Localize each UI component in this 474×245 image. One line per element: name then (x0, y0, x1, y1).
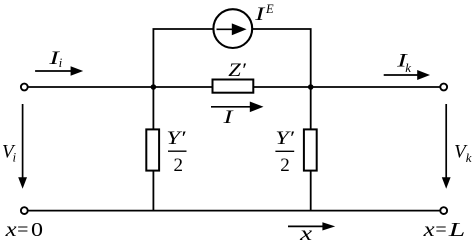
current arrow I_k (out of node k) (384, 70, 430, 80)
svg-text:i: i (13, 150, 17, 165)
label I_k (396, 50, 412, 75)
svg-text:Y′: Y′ (275, 128, 295, 149)
svg-text:I: I (222, 107, 235, 128)
wire: right shunt lower segment (310, 170, 312, 211)
terminal k (upper right, open circle) (440, 84, 447, 91)
axis arrow x (distance coordinate) (288, 222, 335, 230)
svg-text:0: 0 (31, 219, 43, 241)
label V_i (2, 142, 17, 165)
current source I^E (circle with arrow) (213, 9, 252, 48)
admittance Y'/2 left (shunt box) (146, 129, 159, 170)
admittance Y'/2 right (shunt box) (304, 129, 317, 170)
label x = 0 (left end coordinate) (4, 219, 43, 241)
terminal k' (lower right, open circle) (440, 207, 447, 214)
svg-text:x: x (422, 219, 434, 241)
wire: left shunt upper segment (152, 87, 154, 130)
wire: main upper conductor, right segment (254, 86, 440, 88)
svg-text:x: x (4, 219, 16, 241)
label I_i (48, 48, 63, 70)
label I^E of current source (254, 2, 274, 25)
label V_k (454, 142, 472, 165)
label x (axis) (299, 223, 312, 245)
svg-text:=: = (435, 219, 446, 241)
wire: bottom return conductor (28, 210, 439, 212)
terminal i' (lower left, open circle) (21, 207, 28, 214)
svg-text:Y′: Y′ (166, 128, 186, 149)
wire: left riser and top loop segment to current source (153, 29, 213, 87)
terminal i (upper left, open circle) (21, 84, 28, 91)
voltage arrow V_k (right, pointing down) (442, 104, 451, 189)
label x = L (right end coordinate) (422, 219, 465, 241)
current arrow I_i (into node i) (35, 66, 83, 76)
svg-text:k: k (405, 60, 411, 75)
svg-text:E: E (265, 2, 274, 16)
svg-text:Z′: Z′ (228, 60, 246, 81)
wire: left shunt lower segment (152, 170, 154, 211)
wire: main upper conductor, left segment (28, 86, 212, 88)
svg-text:I: I (254, 4, 267, 25)
wire: right riser and top loop segment from current source (252, 29, 310, 87)
current arrow I (below Z' box) (211, 102, 264, 113)
svg-text:i: i (59, 55, 63, 70)
voltage arrow V_i (left, pointing down) (18, 104, 27, 189)
svg-text:L: L (447, 219, 465, 241)
svg-text:x: x (299, 223, 312, 245)
label Y'/2 left (fraction) (166, 128, 186, 176)
impedance Z' (series box on upper conductor) (213, 80, 254, 93)
svg-text:2: 2 (174, 155, 184, 176)
svg-text:k: k (466, 150, 472, 165)
wire: right shunt upper segment (310, 87, 312, 130)
label I (series current) (222, 107, 235, 128)
svg-text:=: = (17, 219, 28, 241)
node i-junction (dot where shunt joins upper conductor, left) (151, 84, 157, 90)
label Z' (228, 60, 246, 81)
node k-junction (dot where shunt joins upper conductor, right) (308, 84, 314, 90)
label Y'/2 right (fraction) (275, 128, 295, 176)
svg-text:2: 2 (280, 155, 290, 176)
